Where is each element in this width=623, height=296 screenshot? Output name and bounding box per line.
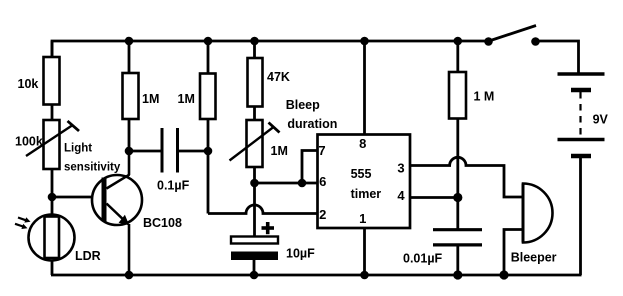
capacitor C3 0.01uF (433, 230, 482, 245)
wire pin8 to rail (363, 41, 366, 135)
svg-text:0.1µF: 0.1µF (157, 179, 190, 193)
transistor Q1 BC108 (92, 151, 142, 275)
resistor R5 1M (449, 72, 466, 119)
wire left rail (51, 41, 54, 275)
wire column R3 (1M to pin2) (207, 41, 210, 214)
node junction dots (48, 37, 509, 280)
svg-text:9V: 9V (593, 113, 609, 127)
svg-text:100k: 100k (15, 135, 43, 149)
svg-text:555: 555 (351, 167, 372, 181)
svg-text:timer: timer (351, 187, 382, 201)
svg-text:Bleep: Bleep (286, 98, 320, 112)
wire base lead to transistor (52, 196, 102, 199)
wire 10uF bottom lead (253, 260, 256, 275)
potentiometer VR2 1M bleep duration (230, 120, 280, 167)
capacitor C2 10uF electrolytic (231, 222, 278, 260)
IC U1 555 timer (318, 135, 411, 229)
svg-text:BC108: BC108 (143, 216, 182, 230)
wire column R5 (1M right / 0.01uF) (456, 41, 459, 230)
svg-text:Light: Light (64, 143, 92, 155)
svg-text:Bleeper: Bleeper (511, 251, 557, 265)
wire 0.1uF right lead (178, 150, 209, 153)
wire 0.01uF bottom lead (456, 245, 459, 275)
svg-text:47K: 47K (267, 70, 290, 84)
wire pin4 lead (410, 196, 458, 199)
svg-text:LDR: LDR (75, 249, 101, 263)
wire pin6 lead (255, 182, 318, 185)
svg-text:1M: 1M (271, 144, 288, 158)
svg-text:duration: duration (287, 117, 337, 131)
wire bleeper bottom lead (504, 230, 523, 276)
svg-text:1M: 1M (178, 92, 195, 106)
resistor R4 47K (248, 58, 263, 107)
resistor R1 10k (44, 57, 60, 105)
resistor R3 1M (200, 74, 216, 120)
resistor R2 1M (123, 73, 139, 119)
potentiometer VR1 100k light sensitivity (26, 120, 79, 169)
wire battery bottom to rail (579, 158, 582, 276)
wire top rail right segment to battery (536, 41, 579, 73)
svg-text:10k: 10k (18, 77, 39, 91)
svg-text:1 M: 1 M (474, 90, 495, 104)
svg-text:10µF: 10µF (286, 247, 315, 261)
battery BT1 9V (558, 74, 605, 156)
svg-text:1M: 1M (142, 92, 159, 106)
wire pin7 link (302, 151, 318, 184)
wire column R4 (47K / pot / 10uF) (253, 41, 256, 237)
LDR (15, 215, 75, 261)
svg-text:8: 8 (359, 136, 366, 151)
svg-text:1: 1 (359, 211, 366, 226)
wire pin3 lead with hop to bleeper (410, 157, 523, 197)
bleeper LS1 (523, 184, 553, 243)
svg-text:2: 2 (319, 207, 326, 222)
switch S1 (484, 26, 540, 46)
svg-text:3: 3 (397, 160, 404, 175)
wire top rail left segment (52, 41, 489, 74)
svg-text:4: 4 (397, 188, 405, 203)
capacitor C1 0.1uF (162, 128, 178, 173)
wire 0.1uF left lead (129, 150, 162, 153)
wire bottom rail (51, 274, 582, 277)
wire pin2 lead with hop (208, 205, 318, 214)
svg-text:7: 7 (318, 143, 325, 158)
svg-text:sensitivity: sensitivity (64, 162, 121, 174)
wire column R2 (1M / transistor) (128, 41, 131, 151)
wire pin1 to bottom rail (363, 228, 366, 275)
svg-text:6: 6 (319, 174, 326, 189)
svg-text:0.01µF: 0.01µF (403, 252, 443, 266)
